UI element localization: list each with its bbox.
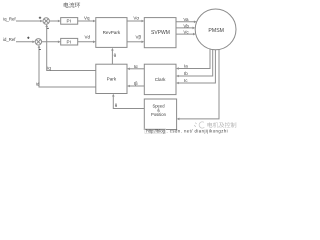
block Speed and Position bbox=[144, 99, 176, 130]
arrowhead into S2 bottom (feedback) bbox=[38, 45, 41, 48]
wire SVPWM to PMSM (Vc) bbox=[176, 33, 193, 35]
wire SVPWM to PMSM (Va) bbox=[176, 21, 194, 23]
svg-text:Ic: Ic bbox=[184, 78, 188, 83]
svg-text:Position: Position bbox=[151, 112, 167, 117]
arrowhead into Clark Ic bbox=[176, 82, 179, 85]
block Park bbox=[96, 64, 127, 93]
block RevPark bbox=[96, 18, 127, 48]
plus sign at S2 bbox=[27, 37, 29, 39]
svg-text:id_Ref: id_Ref bbox=[3, 37, 16, 42]
block PI2 bbox=[61, 38, 78, 45]
svg-text:Vd: Vd bbox=[85, 35, 91, 40]
svg-text:Vβ: Vβ bbox=[136, 35, 142, 40]
svg-text:Iα: Iα bbox=[134, 64, 138, 69]
wire RevPark to SVPWM (Vbeta) bbox=[127, 41, 142, 43]
wire Park id feedback bbox=[39, 47, 96, 87]
wire PI2 to RevPark (Vd) bbox=[78, 41, 94, 43]
wire RevPark to SVPWM (Valpha) bbox=[127, 20, 142, 22]
wire S1 to PI1 bbox=[49, 20, 58, 22]
summing junction S1 bbox=[43, 18, 49, 24]
block Clark bbox=[144, 64, 176, 94]
wire Clark to Park (Ibeta) bbox=[129, 85, 144, 87]
svg-text:PI: PI bbox=[67, 19, 71, 24]
svg-text:Park: Park bbox=[107, 77, 117, 82]
plus sign at S1 bbox=[39, 17, 41, 19]
arrowhead into PI2 bbox=[58, 41, 61, 44]
arrowhead theta into Park bottom bbox=[112, 94, 115, 97]
wire Clark to Park (Ialpha) bbox=[129, 68, 144, 70]
arrowhead into PMSM Vb bbox=[193, 27, 196, 30]
arrowhead into PI1 bbox=[58, 20, 61, 23]
motor PMSM circle bbox=[195, 9, 236, 50]
watermark url box bbox=[145, 128, 166, 133]
svg-text:Ib: Ib bbox=[184, 71, 188, 76]
wire Park iq feedback bbox=[47, 26, 96, 70]
svg-text:Ia: Ia bbox=[184, 64, 188, 69]
svg-text:id: id bbox=[36, 81, 40, 86]
wire SVPWM to PMSM (Vb) bbox=[176, 27, 193, 29]
wire theta bus from Speed block bbox=[113, 96, 144, 109]
arrowhead into S1 bottom (feedback) bbox=[45, 24, 48, 27]
wire theta Park to RevPark bbox=[111, 50, 113, 64]
svg-text:θ: θ bbox=[115, 103, 118, 108]
watermark logo bbox=[194, 122, 204, 128]
svg-text:Vc: Vc bbox=[183, 30, 189, 35]
arrowhead into RevPark Vq bbox=[93, 20, 96, 23]
svg-text:Va: Va bbox=[183, 17, 189, 22]
svg-text:θ: θ bbox=[114, 53, 117, 58]
wire id_Ref input bbox=[16, 41, 33, 43]
minus sign at S1 bbox=[47, 27, 49, 29]
arrowhead into PMSM Vc bbox=[193, 33, 196, 36]
arrowhead into Park Ialpha bbox=[127, 68, 130, 71]
block SVPWM bbox=[144, 18, 176, 48]
arrowhead into Park Ibeta bbox=[127, 85, 130, 88]
minus sign at S2 bbox=[39, 48, 41, 50]
arrowhead into Speed block position bbox=[177, 118, 180, 121]
block PI1 bbox=[61, 18, 78, 25]
arrowhead into Clark Ia bbox=[176, 67, 179, 70]
wire PMSM position to Speed block bbox=[179, 49, 219, 119]
label current loop (dianliuhuan) bbox=[64, 2, 80, 7]
summing junction S2 bbox=[35, 39, 41, 45]
svg-text:Clark: Clark bbox=[155, 77, 166, 82]
svg-text:. csdn. net/ dianjijikongzhi: . csdn. net/ dianjijikongzhi bbox=[167, 129, 229, 134]
arrowhead into RevPark Vd bbox=[93, 41, 96, 44]
svg-text:iq: iq bbox=[47, 65, 51, 70]
arrowhead into Clark Ib bbox=[176, 75, 179, 78]
arrowhead into S2 bbox=[32, 41, 35, 44]
svg-text:SVPWM: SVPWM bbox=[151, 30, 170, 36]
svg-text:http://blog: http://blog bbox=[146, 129, 165, 134]
svg-text:PMSM: PMSM bbox=[208, 28, 224, 34]
svg-text:Vα: Vα bbox=[133, 15, 139, 20]
svg-text:iq_Ref: iq_Ref bbox=[3, 16, 16, 21]
wire PMSM phase b to Clark bbox=[179, 49, 213, 76]
wire iq_Ref input bbox=[16, 20, 41, 22]
svg-text:Vq: Vq bbox=[84, 15, 90, 20]
arrowhead theta into RevPark bottom bbox=[111, 48, 114, 51]
watermark dianji ji kongzhi bbox=[207, 122, 236, 128]
svg-text:PI: PI bbox=[67, 39, 71, 44]
arrowhead into S1 bbox=[40, 20, 43, 23]
svg-text:RevPark: RevPark bbox=[103, 30, 121, 35]
wire S2 to PI2 bbox=[42, 41, 59, 43]
svg-text:Iβ: Iβ bbox=[134, 81, 138, 86]
wire PI1 to RevPark (Vq) bbox=[78, 20, 94, 22]
wire PMSM phase c to Clark bbox=[179, 50, 216, 83]
arrowhead into PMSM Va bbox=[194, 21, 197, 24]
wire PMSM phase a to Clark bbox=[179, 49, 210, 69]
svg-text:Vb: Vb bbox=[183, 23, 189, 28]
arrowhead into SVPWM Vbeta bbox=[142, 41, 145, 44]
arrowhead into SVPWM Valpha bbox=[142, 20, 145, 23]
